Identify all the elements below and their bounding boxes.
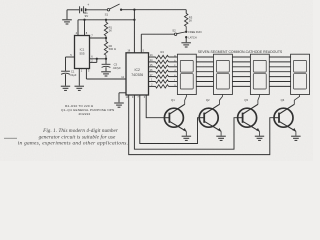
- display DIS2 seven-segment readout: [214, 54, 233, 94]
- wire IC2 pin to Q1 base: [146, 95, 164, 118]
- resistor R1 2K: [104, 20, 112, 38]
- wire segment bus gap 1: [196, 57, 213, 86]
- transistor Q3 2N2222: [238, 98, 265, 140]
- wire DIS4 cathode to Q4 collector: [294, 95, 299, 105]
- wire DIS3 cathode to Q3 collector: [258, 95, 260, 105]
- resistor R9 220 ohm (segment f): [149, 79, 178, 84]
- wire rail to 555 pin 4: [77, 20, 79, 36]
- transistor Q4 2N2222: [274, 98, 301, 140]
- label R4: [161, 50, 165, 54]
- node: pin 8 branch: [83, 19, 85, 21]
- ground (battery negative): [62, 10, 72, 24]
- wire IC2 pin 5 (latch): [141, 34, 174, 53]
- node: R1 top: [105, 19, 107, 21]
- wire V+ down to IC2 pin 18: [133, 10, 135, 53]
- display DIS1 seven-segment readout: [177, 54, 196, 94]
- wire 555 pin 2: [90, 58, 98, 63]
- node: FREE RUN contact: [185, 30, 202, 34]
- wire DIS2 cathode to Q2 collector: [220, 95, 223, 105]
- pin 18 label: [127, 50, 130, 53]
- wire 555 pin 7: [90, 34, 107, 38]
- transistor Q2 2N2222: [199, 98, 226, 140]
- wire IC2 pin to Q4 base: [129, 95, 274, 155]
- resistor R5 220 ohm (segment b): [149, 59, 178, 64]
- wire 555 pin 5: [66, 53, 75, 71]
- wire battery to S1: [86, 9, 108, 11]
- node: R1/R2 junction (555 pin 7): [105, 37, 107, 39]
- battery B1 9V: [80, 3, 90, 18]
- wire DIS1 cathode to Q1 collector: [185, 95, 187, 105]
- wire segment bus gap 3: [269, 57, 290, 86]
- resistor R8 220 ohm (segment e): [149, 74, 178, 79]
- wire 555 pin 6: [90, 55, 107, 59]
- transistor Q1 2N2222: [164, 98, 191, 140]
- counter IC2 74C926: [126, 53, 149, 95]
- switch S1: [105, 4, 120, 17]
- resistor R2 500 ohm: [104, 38, 116, 59]
- wire V+ top rail: [121, 9, 186, 11]
- display DIS4 seven-segment readout: [291, 54, 310, 94]
- node: rail junction: [133, 19, 135, 21]
- display DIS3 seven-segment readout: [250, 54, 269, 94]
- resistor R4 220 ohm (segment a): [149, 54, 178, 59]
- wire IC2 pin to Q3 base: [134, 95, 237, 149]
- scan artifact marks: [4, 138, 17, 139]
- wire 555 pin 3 to IC2 clock: [86, 69, 126, 80]
- capacitor C3 .047uF: [101, 59, 121, 76]
- label: parts note: [61, 104, 114, 116]
- resistor R3 2K: [185, 10, 193, 32]
- wire segment bus gap 2: [232, 57, 250, 86]
- wire battery negative: [67, 9, 79, 11]
- node: S1 fixed contact: [120, 9, 122, 11]
- wire rail to 555 pin 8: [84, 20, 86, 36]
- resistor R6 220 ohm (segment c): [149, 64, 178, 69]
- paper noise: [0, 0, 1, 1]
- pin labels IC2 bottom: [126, 96, 146, 99]
- wire IC2 ground: [114, 93, 126, 107]
- wire second rail: [78, 19, 134, 21]
- node: V+ branch to IC2: [133, 9, 135, 11]
- caption: figure text: [18, 128, 128, 147]
- wire 555 pin 1 to ground: [75, 69, 85, 91]
- node: pins 2/6 timing node: [105, 58, 107, 60]
- op-amp/timer IC1 555: [75, 31, 90, 68]
- resistor R10 220 ohm (segment g): [149, 84, 178, 89]
- switch S2: [172, 29, 185, 36]
- capacitor C1 .01uF: [61, 70, 77, 91]
- resistor R7 220 ohm (segment d): [149, 69, 178, 74]
- wire IC2 pin to Q2 base: [140, 95, 199, 144]
- label: readouts title: [198, 50, 283, 54]
- node: LATCH contact and ground: [181, 35, 196, 47]
